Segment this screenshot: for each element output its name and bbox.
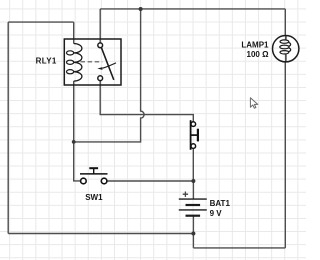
wire: relay NO pin to pushbutton (100, 81, 193, 122)
SW1 contact bar (80, 173, 108, 175)
SW1 left terminal (81, 178, 87, 184)
wire: SW1 output to junction (107, 180, 193, 182)
svg-text:100 Ω: 100 Ω (247, 50, 270, 59)
relay coil left loop 3 (67, 70, 74, 74)
pushbutton top terminal (191, 122, 196, 127)
wire: coil bottom pin down to SW1 (74, 81, 81, 181)
wire: lamp down to bottom right corner (284, 62, 286, 248)
battery plate 4 (short) (186, 215, 201, 217)
mouse cursor (250, 98, 257, 108)
SW1 actuator stem (93, 168, 95, 174)
svg-text:SW1: SW1 (85, 193, 103, 202)
wire: relay common pin up to top net (99, 9, 101, 43)
junction: coil branch (72, 140, 76, 144)
relay coil-contact dashed link (81, 61, 103, 63)
pushbutton (relay driver) (191, 120, 198, 150)
battery BAT1 (179, 192, 207, 216)
junction: top net (139, 7, 143, 11)
lamp envelope circle (273, 36, 299, 62)
pushbutton contact bar (190, 120, 192, 150)
SW1 actuator cap (89, 167, 98, 169)
battery plate 2 (short) (186, 204, 201, 206)
wire: riser from top net dot with hop over crossing (74, 9, 144, 142)
battery plate 3 (long) (179, 209, 207, 211)
relay coil left loop 2 (67, 60, 74, 64)
switch SW1 (80, 168, 108, 184)
svg-text:LAMP1: LAMP1 (241, 40, 269, 49)
relay body box (64, 39, 121, 85)
relay actuation arrow (103, 63, 116, 68)
SW1 right terminal (101, 178, 107, 184)
pushbutton actuator stem (191, 134, 198, 136)
wire: bottom right horizontal run (193, 247, 285, 249)
pushbutton actuator cap (197, 129, 199, 142)
wire: left net vertical (7, 22, 9, 233)
relay switch blade (101, 48, 113, 80)
wire: top net down to lamp (284, 9, 286, 36)
relay contact pivot terminal (98, 43, 103, 48)
relay RLY1 (64, 39, 121, 85)
lamp LAMP1 (273, 36, 299, 62)
svg-text:RLY1: RLY1 (36, 56, 57, 65)
wire: coil top pin (73, 22, 75, 43)
lamp filament (285, 36, 287, 62)
wire: left net top horizontal (8, 21, 74, 23)
pushbutton bottom terminal (191, 144, 196, 149)
relay coil humps (74, 44, 82, 82)
relay contact lower terminal (98, 76, 103, 81)
svg-text:BAT1: BAT1 (210, 199, 231, 208)
wire: pushbutton to SW1 junction (192, 148, 194, 181)
wire: battery negative down through bottom junction (192, 216, 194, 248)
junction: battery positive node (191, 179, 195, 183)
relay coil left loop 1 (67, 51, 74, 55)
junction: bottom net (191, 232, 195, 236)
svg-text:9 V: 9 V (210, 209, 223, 218)
wire: bottom net horizontal (8, 233, 193, 235)
wire: junction down to battery positive (192, 181, 194, 199)
battery plate 1 (long) (179, 198, 207, 200)
battery plus sign (183, 192, 188, 197)
wire: top net horizontal (100, 8, 285, 10)
